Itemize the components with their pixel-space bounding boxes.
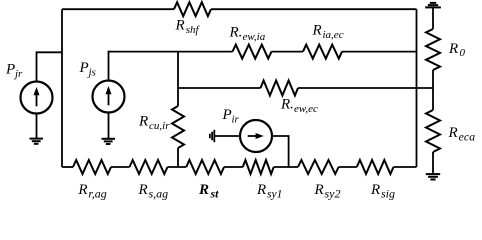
svg-text:R: R <box>256 182 266 198</box>
resistor R_0 <box>426 29 440 70</box>
resistor R_ew,ia <box>233 45 272 59</box>
wire second row <box>109 51 233 53</box>
svg-text:P: P <box>222 107 232 123</box>
svg-text:r,ag: r,ag <box>88 186 106 200</box>
svg-text:R.: R. <box>229 25 243 41</box>
resistor R_shf <box>174 2 211 16</box>
ground above R_0 <box>425 3 441 8</box>
svg-text:R.: R. <box>280 97 294 113</box>
resistor R_sy2 <box>298 160 339 174</box>
wire R_cu,ir bottom lead <box>177 148 179 167</box>
ground below P_jr <box>30 139 44 144</box>
ground below P_js <box>102 139 116 144</box>
svg-text:R: R <box>138 182 148 198</box>
svg-text:P: P <box>79 60 89 76</box>
resistor R_ew,ec <box>261 81 299 96</box>
wire middle vertical (node between P_js and R_cu,ir) <box>177 52 179 106</box>
svg-text:eca: eca <box>459 129 476 143</box>
svg-text:R: R <box>312 23 322 39</box>
svg-text:R: R <box>138 114 148 130</box>
svg-text:R: R <box>370 182 380 198</box>
resistor R_eca <box>426 110 440 152</box>
wire bottom rail <box>62 166 73 168</box>
current source P_jr <box>21 82 53 114</box>
svg-text:0: 0 <box>460 47 466 59</box>
resistor R_st <box>186 160 224 174</box>
svg-text:js: js <box>87 66 96 78</box>
svg-text:ir: ir <box>232 113 240 125</box>
resistor R_s,ag <box>130 160 168 174</box>
svg-text:R: R <box>175 18 185 34</box>
wire P_js top lead <box>109 52 111 81</box>
svg-text:R: R <box>198 182 209 198</box>
wire R_0 top lead <box>432 8 434 29</box>
wire R_0 bottom lead <box>432 70 434 88</box>
wire third row <box>178 87 261 89</box>
svg-text:sy1: sy1 <box>267 188 282 200</box>
wire P_ir right lead <box>272 136 289 167</box>
ground below R_eca <box>426 174 440 179</box>
resistor R_cu,ir <box>172 106 184 148</box>
wire right rail vertical <box>416 9 418 167</box>
svg-text:cu,ir: cu,ir <box>149 120 170 132</box>
svg-text:ew,ec: ew,ec <box>294 103 318 115</box>
svg-text:st: st <box>210 187 220 201</box>
wire P_js bottom lead <box>108 113 110 139</box>
resistor R_ia,ec <box>303 45 342 59</box>
svg-text:s,ag: s,ag <box>149 186 169 200</box>
svg-text:R: R <box>448 125 458 141</box>
wire R_eca top lead <box>432 88 434 110</box>
wire P_jr top lead <box>37 52 63 81</box>
current source P_js <box>93 81 125 113</box>
svg-text:R: R <box>448 41 458 57</box>
ground left of P_ir <box>210 130 214 142</box>
wire top rail from left rail to right rail with R_shf gap <box>62 8 174 10</box>
current source P_ir <box>240 120 272 152</box>
svg-text:P: P <box>5 62 15 78</box>
svg-text:ew,ia: ew,ia <box>243 31 266 43</box>
wire left rail vertical <box>61 9 63 167</box>
svg-text:ia,ec: ia,ec <box>323 29 344 41</box>
svg-text:shf: shf <box>186 24 201 36</box>
svg-text:sy2: sy2 <box>325 186 341 200</box>
svg-text:R: R <box>314 182 324 198</box>
svg-text:R: R <box>77 182 87 198</box>
resistor R_r,ag <box>73 160 111 174</box>
wire P_ir left lead <box>214 135 240 137</box>
resistor R_sig <box>357 160 394 174</box>
svg-text:sig: sig <box>381 186 395 200</box>
wire P_jr bottom lead <box>36 114 38 139</box>
svg-text:jr: jr <box>13 68 23 80</box>
wire R_eca bottom lead <box>432 152 434 174</box>
resistor R_sy1 <box>243 160 274 174</box>
